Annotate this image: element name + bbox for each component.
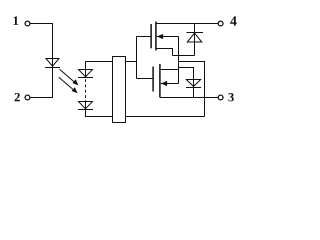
body diode D3 triangle (pointing down)	[186, 80, 200, 87]
bottom rail: Q2 drain to pin 3	[160, 97, 218, 99]
control circuit block U1	[113, 57, 126, 123]
transistor Q1 channel bar	[155, 22, 157, 51]
body diode D2 triangle (pointing up)	[187, 33, 202, 42]
top rail: Q1 drain to pin 4	[156, 23, 218, 25]
wire control block to gate bus	[126, 61, 137, 63]
wire photodiode stack top to control block	[86, 62, 113, 78]
pin label 2	[15, 93, 20, 101]
pin label 3	[228, 93, 233, 101]
LED D1 cathode bar	[45, 67, 60, 69]
transistor Q2 gate bar	[152, 67, 154, 92]
photodiode series dashed link	[85, 79, 87, 101]
wire common node to return line	[179, 62, 205, 117]
transistor Q2 source stub	[160, 69, 179, 71]
pin label 1	[14, 16, 19, 24]
transistor Q1 gate bar	[150, 24, 152, 48]
light arrow 1	[60, 69, 79, 85]
photodiode PD2 triangle	[79, 102, 93, 109]
pin 2 terminal	[25, 95, 30, 100]
wire return line to control block	[126, 116, 205, 118]
body diode D2 leg	[194, 24, 196, 56]
wire gate lead Q2	[137, 78, 153, 80]
transistor Q1 body arrow	[157, 34, 179, 39]
wire photodiode stack bottom to control block	[86, 102, 113, 117]
body diode D3 cathode bar	[186, 87, 201, 89]
transistor Q2 body arrow	[161, 81, 179, 86]
pin 4 terminal	[218, 21, 223, 26]
transistor Q1 source stub	[156, 49, 173, 56]
wire LED cathode to pin 2	[30, 59, 53, 98]
pin 1 terminal	[25, 21, 30, 26]
pin label 4	[230, 16, 237, 25]
photodiode PD2 cathode bar	[78, 109, 93, 111]
wire pin1 to LED anode	[30, 24, 53, 59]
transistor Q2 channel bar	[159, 64, 161, 98]
photodiode PD1 triangle	[79, 70, 93, 77]
photodiode PD1 cathode bar	[78, 77, 93, 79]
wire diode D3 anode feed	[179, 68, 194, 98]
light arrow 2	[59, 77, 78, 93]
body diode D2 cathode bar	[187, 32, 204, 34]
gate bus vertical	[136, 37, 138, 79]
body bus vertical	[178, 37, 180, 84]
wire Q1 source node	[173, 55, 195, 57]
pin 3 terminal	[218, 95, 223, 100]
LED D1 anode triangle	[46, 59, 59, 67]
wire gate lead Q1	[137, 36, 151, 38]
